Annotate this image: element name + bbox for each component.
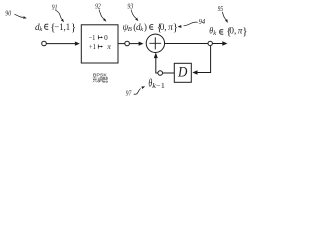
wire node to adder arrow	[130, 43, 139, 45]
svg-text:90: 90	[5, 10, 11, 18]
arrowhead toward BPSK box	[75, 42, 80, 46]
svg-text:}: }	[173, 21, 178, 33]
arrowhead toward adder bottom	[154, 52, 158, 58]
leader arrow 97	[134, 89, 141, 95]
arrowhead toward D box	[192, 70, 197, 74]
svg-text:94: 94	[199, 18, 206, 26]
leader arrow 95	[222, 12, 226, 20]
BPSK box	[81, 25, 118, 63]
leader arrow 93	[131, 10, 136, 19]
svg-text:k−1: k−1	[152, 82, 165, 90]
wire box right to node	[118, 43, 125, 45]
leader arrow 92	[99, 10, 104, 19]
svg-text:D: D	[177, 65, 188, 81]
svg-text:0,: 0,	[160, 22, 167, 32]
text dk in {-1,1}	[35, 22, 76, 34]
svg-text:B: B	[128, 26, 132, 33]
wire D output to feedback node	[163, 72, 175, 74]
wire input horizontal	[47, 43, 76, 45]
svg-text:}: }	[71, 22, 76, 34]
leader arrow 91	[55, 10, 61, 19]
svg-text:93: 93	[127, 3, 133, 11]
text theta k-1	[148, 77, 165, 91]
terminal input circle	[42, 41, 47, 46]
arrowhead toward adder left	[139, 42, 144, 46]
svg-text:}: }	[242, 25, 247, 37]
node circle after BPSK box	[125, 41, 130, 46]
svg-text:92: 92	[95, 3, 101, 11]
svg-text:+1: +1	[89, 43, 97, 51]
leader arrow 94	[184, 22, 198, 26]
leader arrow 90	[14, 14, 23, 17]
wire output node to out arrow	[213, 43, 223, 45]
adder plus sign	[149, 37, 161, 49]
node circle feedback	[158, 71, 163, 76]
node circle output junction	[208, 41, 212, 45]
svg-text:0: 0	[104, 34, 108, 42]
wire feedback node to corner then up to adder	[156, 58, 158, 73]
svg-text:π: π	[107, 43, 111, 51]
wire adder to output node	[165, 43, 208, 45]
svg-text:−1: −1	[89, 34, 96, 42]
kanji hen (change)	[93, 77, 108, 82]
svg-text:−1,1: −1,1	[54, 22, 70, 32]
arrowhead output right	[222, 41, 227, 45]
adder circle	[146, 34, 164, 52]
box text +1 maps to pi	[89, 43, 112, 51]
wire feedback right: down from node and left into D arrow	[197, 46, 210, 73]
box text -1 maps to 0	[89, 34, 109, 42]
text psiB(dk) in {0,pi}	[123, 21, 178, 33]
D box delay	[174, 63, 191, 82]
svg-text:97: 97	[126, 89, 132, 97]
svg-text:): )	[144, 22, 147, 32]
svg-text:0,: 0,	[229, 26, 236, 36]
text thetak in {0,pi}	[209, 25, 247, 37]
